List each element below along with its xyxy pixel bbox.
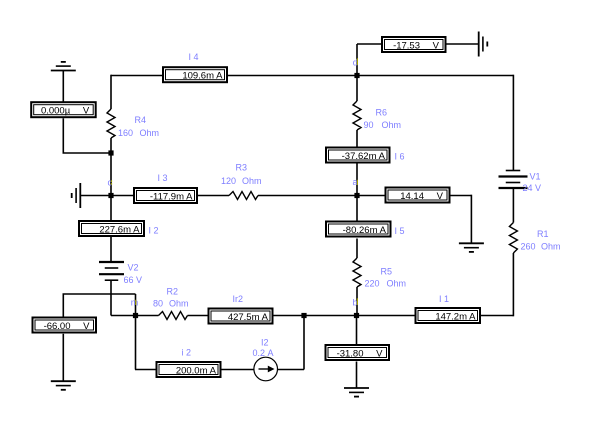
node junction a: [354, 193, 359, 198]
label R2 unit Ohm: [169, 299, 189, 309]
label R3: [236, 163, 248, 173]
svg-text:A: A: [216, 71, 223, 82]
wire left column top corner to R4: [110, 75, 112, 109]
ammeter i2 200.0m A: [157, 362, 221, 377]
wire vertical ground to voltmeter 0.000u top: [62, 71, 64, 102]
voltmeter -66.00 V: [33, 318, 97, 333]
svg-text:I2: I2: [261, 337, 269, 347]
label R3 value 120 Ohm: [221, 176, 236, 186]
svg-text:R3: R3: [236, 163, 248, 173]
ammeter I6 -37.62m A: [326, 148, 390, 163]
wire ammeter I2 to battery V2: [110, 237, 112, 262]
svg-text:220: 220: [365, 279, 380, 289]
wire corner up to node: [303, 316, 305, 370]
svg-text:I 2: I 2: [149, 226, 159, 236]
wire y315 battery column to node m: [111, 315, 136, 317]
wire vertical to ground mid-right: [470, 195, 472, 244]
current source I2: [254, 357, 278, 381]
wire node d to R6: [356, 76, 358, 102]
resistor R6: [353, 101, 361, 130]
node junction lower mid: [301, 313, 306, 318]
svg-text:V: V: [83, 106, 90, 117]
label i2: [182, 348, 192, 358]
svg-text:Ohm: Ohm: [242, 176, 262, 186]
svg-text:80: 80: [153, 299, 163, 309]
label V1: [530, 172, 541, 182]
svg-text:R1: R1: [537, 229, 549, 239]
resistor R5: [353, 258, 361, 287]
svg-text:147.2m: 147.2m: [435, 311, 467, 322]
ammeter I5 -80.26m A: [326, 222, 391, 237]
wire R2 to ammeter Ir2: [188, 315, 208, 317]
label V2: [128, 263, 139, 273]
wire voltmeter 14.14 to ground corner: [450, 195, 471, 197]
svg-text:A: A: [379, 151, 386, 162]
svg-text:I 6: I 6: [395, 152, 405, 162]
resistor R1: [509, 223, 517, 254]
label Ir2: [233, 294, 244, 304]
svg-text:14.14: 14.14: [400, 191, 424, 202]
svg-text:R6: R6: [376, 108, 388, 118]
wire y294 horizontal: [63, 293, 136, 295]
wire voltmeter -66 top stub: [62, 294, 64, 317]
wire voltmeter 0.000u bottom to y153: [62, 118, 64, 153]
node label c: [108, 178, 113, 188]
node junction m: [133, 313, 138, 318]
svg-text:109.6m: 109.6m: [182, 71, 214, 82]
label R6 unit Ohm: [382, 120, 402, 130]
label I6: [395, 152, 405, 162]
svg-text:V: V: [437, 191, 444, 202]
wire node to node b: [304, 315, 357, 317]
svg-text:V2: V2: [128, 263, 139, 273]
ammeter I2 227.6m A: [79, 221, 144, 236]
svg-text:A: A: [133, 224, 140, 235]
svg-text:Ir2: Ir2: [233, 294, 244, 304]
wire ammeter I6 through node a to ammeter I5: [356, 164, 358, 221]
wire R1 top to battery V1: [512, 188, 514, 223]
wire y153 horizontal to node: [63, 152, 112, 154]
wire R6 to ammeter I6: [356, 130, 358, 147]
battery V1: [499, 171, 528, 189]
svg-text:-80.26m: -80.26m: [343, 225, 378, 236]
svg-text:c: c: [108, 178, 113, 188]
ground bottom-middle: [344, 388, 369, 397]
wire x135 vertical y294-y315: [135, 294, 137, 316]
node label b: [353, 298, 358, 308]
label R1 value 260 Ohm: [521, 242, 536, 252]
label R2: [167, 287, 179, 297]
label I2 source: [261, 337, 269, 347]
resistor R4: [107, 109, 115, 138]
svg-text:m: m: [131, 298, 139, 308]
node label m: [131, 298, 139, 308]
node label d yellow overlap: [356, 58, 358, 65]
node junction top d: [354, 73, 359, 78]
label R1 unit Ohm: [541, 242, 561, 252]
svg-text:Ohm: Ohm: [140, 128, 160, 138]
voltmeter -17.53 V: [382, 37, 446, 52]
wire ammeter I3 to R3: [198, 195, 229, 197]
wire ammeter I1 to right column: [481, 315, 513, 317]
svg-text:A: A: [210, 365, 217, 376]
node label b yellow overlap: [356, 298, 358, 305]
wire ammeter i2 to current source: [222, 369, 255, 371]
svg-text:A: A: [262, 312, 269, 323]
svg-text:V: V: [83, 321, 90, 332]
label R5: [381, 267, 393, 277]
label R3 unit Ohm: [242, 176, 262, 186]
svg-text:227.6m: 227.6m: [99, 224, 131, 235]
svg-text:-117.9m: -117.9m: [150, 191, 184, 202]
resistor R3: [229, 192, 258, 200]
wire node a to voltmeter 14.14: [357, 195, 385, 197]
svg-text:90: 90: [364, 120, 374, 130]
svg-text:a: a: [353, 177, 358, 187]
wire voltmeter -66 bottom to ground: [62, 334, 64, 381]
svg-text:Ohm: Ohm: [382, 120, 402, 130]
svg-text:24 V: 24 V: [523, 183, 542, 193]
label V1 value 24 V: [523, 183, 542, 193]
ground mid-right: [459, 243, 484, 252]
battery V2: [99, 262, 124, 280]
wire battery V1 top to top bus: [512, 75, 514, 171]
svg-text:V1: V1: [530, 172, 541, 182]
svg-text:Ohm: Ohm: [169, 299, 189, 309]
voltmeter 14.14 V: [386, 188, 450, 203]
label V2 value 66 V: [124, 275, 143, 285]
wire voltmeter -17.53 to ground: [446, 43, 479, 45]
svg-text:-37.62m: -37.62m: [342, 151, 377, 162]
voltmeter -31.80 V: [326, 345, 390, 360]
svg-text:160: 160: [118, 128, 133, 138]
label R6 value 90 Ohm: [364, 120, 374, 130]
voltmeter 0.000u V: [31, 102, 96, 117]
svg-text:R2: R2: [167, 287, 179, 297]
label R4 unit Ohm: [140, 128, 160, 138]
label R6: [376, 108, 388, 118]
wire stub node d to voltmeter -17.53: [357, 43, 382, 45]
node label a: [353, 177, 358, 187]
wire node m down to i2 branch: [135, 316, 137, 370]
wire top bus left segment: [111, 75, 163, 77]
wire right column up to R1: [512, 253, 514, 316]
label R5 value 220 Ohm: [365, 279, 380, 289]
wire node b to ammeter I1: [357, 315, 416, 317]
svg-text:R4: R4: [135, 115, 147, 125]
ammeter I4 109.6m A: [163, 67, 227, 82]
wire battery V2 bottom down: [110, 280, 112, 316]
svg-text:A: A: [469, 311, 476, 322]
svg-text:R5: R5: [381, 267, 393, 277]
wire node c to ammeter I3: [111, 195, 133, 197]
label I5: [395, 226, 405, 236]
svg-text:b: b: [353, 298, 358, 308]
wire node d vertical stub up: [356, 44, 358, 76]
svg-text:260: 260: [521, 242, 536, 252]
wire R3 to node a: [258, 195, 357, 197]
svg-text:I 3: I 3: [158, 173, 168, 183]
svg-text:0.000µ: 0.000µ: [41, 106, 71, 117]
wire current source to corner: [278, 369, 305, 371]
node junction c: [108, 193, 113, 198]
wire to ammeter i2: [135, 369, 156, 371]
ammeter I1 147.2m A: [416, 308, 481, 323]
svg-text:i 2: i 2: [182, 348, 192, 358]
label I4: [189, 52, 199, 62]
wire ground-left to node c: [80, 195, 111, 197]
node junction left upper: [108, 150, 113, 155]
label R4 value 160 Ohm: [118, 128, 133, 138]
label I2 value 0.2 A: [253, 348, 274, 358]
label R5 unit Ohm: [387, 279, 407, 289]
label R1: [537, 229, 549, 239]
ground top-right: [479, 32, 488, 57]
node label a yellow overlap: [356, 180, 358, 185]
svg-text:A: A: [186, 191, 193, 202]
svg-text:V: V: [433, 40, 440, 51]
wire node b to voltmeter -31.80: [356, 316, 358, 345]
svg-text:427.5m: 427.5m: [228, 312, 260, 323]
ground top-left: [51, 62, 76, 71]
svg-text:66 V: 66 V: [124, 275, 143, 285]
svg-text:A: A: [380, 225, 387, 236]
svg-text:V: V: [376, 348, 383, 359]
label I3: [158, 173, 168, 183]
ground left of node c: [72, 183, 81, 208]
resistor R2: [159, 312, 188, 320]
svg-text:Ohm: Ohm: [541, 242, 561, 252]
label R2 value 80 Ohm: [153, 299, 163, 309]
wire top bus right segment: [228, 75, 513, 77]
wire ammeter Ir2 to node: [274, 315, 305, 317]
wire voltmeter -31.80 to ground: [356, 362, 358, 389]
wire node m to R2: [136, 315, 159, 317]
node label c yellow overlap: [111, 180, 113, 184]
label R4: [135, 115, 147, 125]
svg-text:-17.53: -17.53: [393, 40, 420, 51]
svg-text:I 5: I 5: [395, 226, 405, 236]
wire R5 to node b: [356, 287, 358, 316]
node label m yellow overlap: [135, 300, 137, 305]
wire ammeter I5 to R5: [356, 239, 358, 259]
wire R4 bottom through nodes to ammeter I2: [110, 138, 112, 221]
svg-text:-31.80: -31.80: [337, 348, 364, 359]
svg-text:Ohm: Ohm: [387, 279, 407, 289]
node junction b: [354, 313, 359, 318]
svg-text:200.0m: 200.0m: [176, 365, 208, 376]
label I1: [439, 294, 449, 304]
svg-text:I 4: I 4: [189, 52, 199, 62]
svg-text:I 1: I 1: [439, 294, 449, 304]
svg-text:-66.00: -66.00: [44, 321, 71, 332]
svg-text:120: 120: [221, 176, 236, 186]
ground bottom-left: [51, 381, 76, 390]
ammeter Ir2 427.5m A: [209, 309, 273, 324]
ammeter I3 -117.9m A: [134, 188, 197, 203]
node label d: [353, 58, 358, 68]
svg-text:0.2 A: 0.2 A: [253, 348, 274, 358]
label I2 ammeter: [149, 226, 159, 236]
